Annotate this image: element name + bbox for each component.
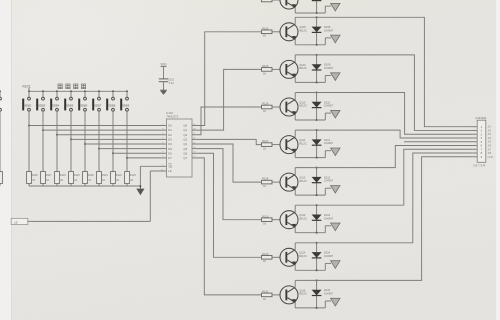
svg-text:9012C: 9012C (299, 104, 307, 108)
svg-text:1K: 1K (102, 179, 105, 182)
svg-text:D2: D2 (168, 133, 172, 137)
svg-text:2 8 7 9 R: 2 8 7 9 R (473, 164, 486, 168)
svg-text:9012C: 9012C (299, 66, 307, 70)
svg-text:D5: D5 (168, 147, 172, 151)
svg-text:D6: D6 (168, 151, 172, 155)
svg-text:1K: 1K (60, 179, 63, 182)
svg-text:R126: R126 (262, 102, 269, 106)
svg-text:R128: R128 (262, 177, 269, 181)
svg-text:S3003: S3003 (38, 104, 46, 108)
svg-text:74HC573: 74HC573 (166, 115, 178, 119)
svg-text:1N4007: 1N4007 (324, 292, 334, 296)
svg-text:OE: OE (168, 164, 172, 168)
svg-text:Q3: Q3 (183, 137, 187, 141)
svg-text:1K: 1K (32, 179, 35, 182)
svg-text:R122: R122 (116, 174, 123, 177)
svg-text:Q1: Q1 (183, 128, 187, 132)
svg-text:R119: R119 (74, 174, 80, 177)
svg-text:1K: 1K (263, 147, 266, 151)
svg-text:S3006: S3006 (80, 104, 88, 108)
svg-text:D4: D4 (168, 142, 172, 146)
svg-text:R130: R130 (262, 252, 269, 256)
svg-text:R124: R124 (262, 26, 269, 30)
svg-text:S3009: S3009 (122, 104, 130, 108)
svg-text:1K: 1K (263, 34, 266, 38)
svg-text:R120: R120 (88, 174, 95, 177)
svg-text:1K: 1K (263, 297, 266, 301)
svg-text:S3002: S3002 (24, 104, 32, 108)
svg-text:1N4007: 1N4007 (324, 141, 334, 145)
svg-text:R121: R121 (102, 174, 109, 177)
svg-text:S3007: S3007 (94, 104, 102, 108)
svg-text:1N4007: 1N4007 (324, 104, 334, 108)
svg-text:Q7: Q7 (183, 156, 187, 160)
svg-text:CON102: CON102 (475, 116, 486, 120)
svg-text:Q0: Q0 (183, 124, 187, 128)
svg-text:1K: 1K (46, 179, 49, 182)
svg-text:COM: COM (487, 157, 492, 159)
svg-text:R118: R118 (60, 174, 66, 177)
svg-text:9012C: 9012C (299, 254, 307, 258)
svg-text:9012C: 9012C (299, 141, 307, 145)
svg-text:9012C: 9012C (299, 292, 307, 296)
svg-text:Q6: Q6 (183, 151, 187, 155)
svg-text:1K: 1K (263, 222, 266, 226)
svg-text:C101: C101 (168, 79, 175, 82)
svg-text:D0: D0 (168, 124, 172, 128)
svg-text:1K: 1K (263, 259, 266, 263)
svg-text:1N4007: 1N4007 (324, 28, 334, 32)
svg-text:1N4007: 1N4007 (324, 66, 334, 70)
svg-text:R116: R116 (32, 174, 38, 177)
svg-text:11: 11 (161, 169, 163, 171)
svg-text:R117: R117 (46, 174, 52, 177)
svg-text:1: 1 (162, 165, 163, 167)
svg-text:Q5: Q5 (183, 147, 187, 151)
svg-text:LE: LE (168, 169, 172, 173)
svg-text:S3004: S3004 (52, 104, 60, 108)
svg-text:1K: 1K (263, 109, 266, 113)
svg-text:KEY1: KEY1 (23, 85, 31, 89)
svg-text:1K: 1K (263, 184, 266, 188)
svg-text:R129: R129 (262, 214, 269, 218)
svg-text:D7: D7 (168, 156, 172, 160)
svg-text:S3005: S3005 (66, 104, 74, 108)
svg-text:9012C: 9012C (299, 29, 307, 33)
svg-text:Q2: Q2 (183, 133, 187, 137)
svg-text:9012C: 9012C (299, 179, 307, 183)
svg-text:R131: R131 (262, 290, 269, 294)
svg-text:Q4: Q4 (183, 142, 187, 146)
svg-text:9012C: 9012C (299, 216, 307, 220)
svg-text:1K: 1K (263, 71, 266, 75)
svg-text:D3: D3 (168, 137, 172, 141)
svg-text:1K: 1K (88, 179, 91, 182)
svg-text:1K: 1K (116, 179, 119, 182)
svg-text:LE: LE (14, 220, 18, 224)
svg-text:R123: R123 (130, 174, 137, 177)
svg-text:1N4007: 1N4007 (324, 179, 334, 183)
svg-text:VCC: VCC (160, 62, 167, 66)
svg-text:1N4007: 1N4007 (324, 216, 334, 220)
svg-text:D1: D1 (168, 128, 172, 132)
svg-text:1K: 1K (74, 179, 77, 182)
svg-text:0.1U: 0.1U (169, 82, 174, 85)
svg-text:S3008: S3008 (108, 104, 116, 108)
svg-text:1N4007: 1N4007 (324, 254, 334, 258)
svg-text:R127: R127 (262, 139, 269, 143)
svg-text:1K: 1K (130, 179, 133, 182)
svg-text:R125: R125 (262, 64, 269, 68)
